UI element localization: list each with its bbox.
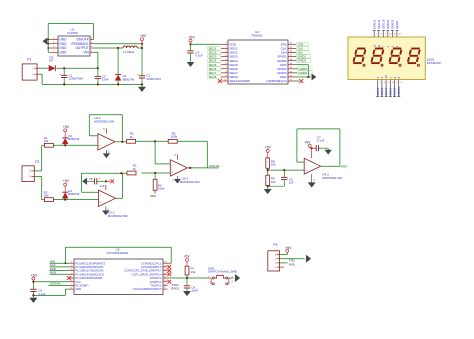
wire R6 to output node xyxy=(177,141,207,168)
svg-text:15nF: 15nF xyxy=(102,78,109,82)
svg-text:RXD: RXD xyxy=(50,271,57,275)
svg-text:GND: GND xyxy=(59,51,67,55)
svg-text:GRID1: GRID1 xyxy=(372,20,376,30)
node gnd C6 xyxy=(32,294,34,296)
svg-text:P1.4/ADC4/SS/MCLKO2: P1.4/ADC4/SS/MCLKO2 xyxy=(75,272,104,276)
power +5V at U4.2 xyxy=(304,140,316,158)
svg-text:10k: 10k xyxy=(271,180,276,184)
IC U2 TM1620 xyxy=(228,30,288,84)
wire ON/OFF loop to ground xyxy=(48,24,93,40)
svg-text:CCP1/ADC5/P1.5: CCP1/ADC5/P1.5 xyxy=(141,265,162,269)
LED1 digit 4 xyxy=(408,49,420,67)
resistor R1 xyxy=(44,136,54,147)
svg-text:M7: M7 xyxy=(49,59,54,63)
svg-text:10nF: 10nF xyxy=(191,289,198,293)
node switch / D1 xyxy=(117,47,119,49)
capacitor C3 xyxy=(95,68,109,84)
ground at U2 xyxy=(308,74,316,80)
svg-text:SIGNAL: SIGNAL xyxy=(209,164,221,168)
svg-text:+: + xyxy=(99,144,101,148)
svg-text:P2: P2 xyxy=(35,160,39,164)
svg-text:SEG13/GRID6: SEG13/GRID6 xyxy=(229,79,250,83)
ground at C4 xyxy=(187,62,194,66)
LED1 digit 3 xyxy=(389,49,401,67)
svg-text:10k: 10k xyxy=(191,270,196,274)
ground port at P3 xyxy=(306,255,311,262)
ground at U3.2 xyxy=(103,211,110,215)
net label GRID4 xyxy=(295,71,313,75)
svg-text:GRID5/SEG14: GRID5/SEG14 xyxy=(266,79,287,83)
wire P3 TXD to ground port xyxy=(280,258,305,260)
U1 left pins GND xyxy=(50,38,58,53)
net label RXD2 at U5 xyxy=(171,287,179,291)
node C5 tap xyxy=(283,169,285,171)
svg-text:GRID3: GRID3 xyxy=(391,20,395,30)
resistor R7 xyxy=(185,266,196,275)
svg-text:RXD: RXD xyxy=(289,263,295,267)
resistor R3 xyxy=(127,164,137,175)
svg-text:0.1uF: 0.1uF xyxy=(195,54,203,58)
ground at C7 xyxy=(325,148,332,154)
net label GRID1 xyxy=(295,55,311,59)
no-connect U2 pin10 xyxy=(218,79,222,83)
net label REF at R4 xyxy=(150,194,156,198)
svg-text:-: - xyxy=(306,161,307,165)
svg-text:VIN: VIN xyxy=(83,51,89,55)
node D4 clamp xyxy=(64,199,66,201)
svg-text:1uF: 1uF xyxy=(289,181,294,185)
svg-text:+: + xyxy=(305,168,307,172)
svg-text:1k: 1k xyxy=(133,167,137,171)
U4.2 feedback wire xyxy=(297,129,340,166)
connector P2 xyxy=(22,160,39,182)
wire P3 pin1 stub xyxy=(280,266,285,268)
net label SIGNAL at U5 xyxy=(49,282,70,286)
svg-text:MCP6002-ISN: MCP6002-ISN xyxy=(94,120,114,124)
node D3 clamp xyxy=(64,144,66,146)
svg-text:SWITCH-6x6x5_SMD: SWITCH-6x6x5_SMD xyxy=(208,270,238,274)
svg-text:P1.1/ADC1/TXD2/CCP0: P1.1/ADC1/TXD2/CCP0 xyxy=(75,269,104,273)
node C1 top xyxy=(63,67,65,69)
svg-text:L1 68uH: L1 68uH xyxy=(123,50,134,54)
net label CLK at U5 xyxy=(50,263,70,267)
node gnd D1 xyxy=(117,83,119,85)
connector P1 xyxy=(22,58,37,81)
wire P1 pin1 to D2 anode xyxy=(37,67,49,69)
svg-text:GRID2: GRID2 xyxy=(386,20,390,30)
svg-text:C8: C8 xyxy=(89,177,93,181)
net label GRID2 xyxy=(295,59,311,63)
wire key row xyxy=(168,277,211,279)
net label CLK xyxy=(295,46,309,50)
svg-text:1uF: 1uF xyxy=(100,184,105,188)
U4.2 ground pin xyxy=(312,174,316,183)
svg-text:B5817W: B5817W xyxy=(68,137,79,141)
svg-text:10k: 10k xyxy=(44,194,49,198)
ground at U3.1 xyxy=(103,154,110,158)
svg-text:CCP2/CCP2_2/TXD_2/INT/P3.7: CCP2/CCP2_2/TXD_2/INT/P3.7 xyxy=(124,269,162,273)
node VIN / C3 xyxy=(97,67,99,69)
wire P3 to +5V xyxy=(280,252,288,254)
net label TXD at P3 xyxy=(289,258,295,262)
capacitor C1 xyxy=(59,68,83,84)
svg-text:TXD/P3.1: TXD/P3.1 xyxy=(150,284,162,288)
op-amp U3.2 xyxy=(99,190,128,218)
svg-text:P3: P3 xyxy=(273,243,277,247)
power +5V divider xyxy=(265,146,272,158)
wire U3.1 out to R5 xyxy=(122,141,126,143)
power +5V at P3 xyxy=(285,246,292,252)
net label SIGNAL xyxy=(209,164,221,168)
node +5V output xyxy=(141,47,143,49)
display LED1 FJ5461AH xyxy=(348,37,441,80)
U3.1 feedback wire xyxy=(89,115,122,142)
node key xyxy=(186,277,188,279)
ground at U1 xyxy=(43,38,47,44)
capacitor C7 xyxy=(316,135,325,151)
svg-text:SIGNAL: SIGNAL xyxy=(50,282,61,286)
svg-text:100k: 100k xyxy=(171,135,178,139)
net label REF output xyxy=(341,164,347,168)
diode D3 xyxy=(62,134,79,145)
svg-text:GRID2: GRID2 xyxy=(297,59,306,63)
power +5V at U5 xyxy=(31,274,38,282)
node feedback xyxy=(141,43,143,45)
resistor R2 xyxy=(44,190,54,201)
svg-text:STC15W404AS: STC15W404AS xyxy=(107,251,129,255)
power +5V at D3 xyxy=(63,125,70,138)
svg-text:-: - xyxy=(172,163,173,167)
svg-text:REF: REF xyxy=(341,164,347,168)
svg-text:220uF/35V: 220uF/35V xyxy=(69,77,84,81)
U4.1 power pins xyxy=(172,154,177,182)
svg-text:+5V: +5V xyxy=(31,274,38,278)
op-amp U4.1 xyxy=(170,160,199,184)
wire U1 GND bus xyxy=(47,39,50,53)
ground at U4.2 xyxy=(308,183,315,188)
no-connect at C8 xyxy=(106,179,114,183)
U2 left pins xyxy=(222,43,229,82)
wire R3 to U4.1 non-inverting xyxy=(142,172,171,174)
svg-text:10k: 10k xyxy=(44,139,49,143)
resistor R9 xyxy=(266,175,276,185)
svg-text:-: - xyxy=(99,137,100,141)
U3.1 power pins xyxy=(103,128,110,154)
svg-text:+5V: +5V xyxy=(265,146,272,150)
node VCC xyxy=(32,281,34,283)
svg-text:+5V: +5V xyxy=(63,179,70,183)
wire +5V to VDD xyxy=(191,43,222,45)
wire SW1 to ground xyxy=(228,277,234,279)
U5 left pins xyxy=(70,262,75,290)
svg-text:10k: 10k xyxy=(271,163,276,167)
net label TXD at U5 xyxy=(171,283,179,287)
IC U1 XL1509 xyxy=(58,28,90,56)
ground at SW1 xyxy=(235,274,240,281)
LED1 digit 2 xyxy=(371,49,383,67)
U5 right pins xyxy=(163,262,168,290)
ground at U5 xyxy=(30,295,37,302)
svg-text:SEG8: SEG8 xyxy=(209,75,217,79)
power +5V at R7 xyxy=(183,255,190,267)
svg-text:P1.3/CMP+: P1.3/CMP+ xyxy=(75,284,89,288)
svg-text:XL1509: XL1509 xyxy=(67,31,78,35)
no-connect U5 pin5 xyxy=(67,276,71,280)
switch SW1 xyxy=(208,266,238,285)
svg-text:SEG11: SEG11 xyxy=(377,19,381,29)
wire L1 to +5V node xyxy=(137,47,142,49)
U1 right pins xyxy=(90,38,94,53)
ground at U4.1 xyxy=(174,179,180,183)
svg-text:P1.0/ADC0/RXD2/CCP1: P1.0/ADC0/RXD2/CCP1 xyxy=(75,265,104,269)
net label RXD at U5 xyxy=(50,271,70,275)
IC U5 STC15W404AS xyxy=(74,248,163,295)
capacitor C6 xyxy=(30,282,46,296)
no-connect U5 right pins xyxy=(167,265,171,284)
wire divider mid xyxy=(268,168,305,175)
power +5V main xyxy=(140,34,147,44)
U2 right pins xyxy=(288,43,295,82)
net label GRID3 xyxy=(295,67,313,71)
diode D1 xyxy=(115,48,134,84)
resistor R6 xyxy=(168,131,177,143)
LED1 top pins xyxy=(372,19,401,48)
svg-text:SEG9: SEG9 xyxy=(395,21,399,29)
svg-text:+5V: +5V xyxy=(304,140,311,144)
node U2 ground xyxy=(307,76,309,78)
ground at divider xyxy=(264,186,271,194)
svg-text:P5.5/ADC13/CMP0/RST2: P5.5/ADC13/CMP0/RST2 xyxy=(75,261,105,265)
svg-text:B5817W: B5817W xyxy=(68,192,79,196)
svg-text:+: + xyxy=(100,200,102,204)
svg-text:+: + xyxy=(171,170,173,174)
wire U4.1 output SIGNAL xyxy=(187,167,218,169)
svg-text:CCP0/ADC1/P1.1: CCP0/ADC1/P1.1 xyxy=(141,261,162,265)
wire R7 to node xyxy=(186,275,188,278)
svg-text:0.1uF: 0.1uF xyxy=(317,139,325,143)
node U2 VDD xyxy=(189,43,191,45)
ground at C9 xyxy=(183,291,190,296)
net labels SEG1-SEG8 xyxy=(208,46,222,79)
net label RXD at P3 xyxy=(289,263,295,267)
connector P3 xyxy=(268,243,280,271)
svg-text:+5V: +5V xyxy=(140,34,147,38)
svg-text:MCP6002-ISN: MCP6002-ISN xyxy=(322,176,342,180)
svg-text:-: - xyxy=(100,193,101,197)
node inverting input U4.1 xyxy=(154,140,156,142)
capacitor C9 xyxy=(184,278,199,293)
capacitor C8 bypass xyxy=(83,177,106,188)
svg-text:MCP6002-ISN: MCP6002-ISN xyxy=(108,214,128,218)
svg-text:T2CLKO/RXD/INT4/P3.0: T2CLKO/RXD/INT4/P3.0 xyxy=(133,287,162,291)
wire DIN loop over U5 xyxy=(65,247,172,264)
wire P2 pin2 to R2 xyxy=(34,176,44,199)
svg-text:TM1620: TM1620 xyxy=(251,34,263,38)
svg-text:GRID4: GRID4 xyxy=(299,71,308,75)
wire R2 to U3.2 xyxy=(53,199,98,201)
node gnd C3 xyxy=(97,83,99,85)
wire U5 GND xyxy=(33,289,69,295)
svg-text:MCP6002-ISN: MCP6002-ISN xyxy=(180,180,200,184)
svg-text:FJ5461AH: FJ5461AH xyxy=(427,61,442,65)
power +5V at D4 xyxy=(63,179,70,192)
net label STB xyxy=(295,42,309,46)
wire P2 pin1 to R1 xyxy=(34,145,44,171)
wire ground rail xyxy=(37,74,142,84)
wire U2 GND pins xyxy=(295,65,309,77)
capacitor C5 xyxy=(268,170,294,186)
svg-text:GRID4: GRID4 xyxy=(397,86,401,96)
wire node to U4.1 inverting xyxy=(155,141,170,164)
node divider mid xyxy=(267,169,269,171)
op-amp U4.2 xyxy=(304,158,342,180)
diode D2 xyxy=(49,55,55,71)
wire VIN riser xyxy=(94,52,98,68)
LED1 digit 1 xyxy=(353,49,365,67)
svg-text:P1.5/ADC5/MOSI/CMP-: P1.5/ADC5/MOSI/CMP- xyxy=(75,276,103,280)
svg-text:SEG10: SEG10 xyxy=(381,19,385,29)
svg-text:+5V: +5V xyxy=(63,125,70,129)
node gnd C1 xyxy=(63,83,65,85)
net label DIN xyxy=(295,51,309,55)
svg-text:RXD2: RXD2 xyxy=(171,287,179,291)
LED1 bottom pins xyxy=(376,75,403,97)
U3.2 feedback wire xyxy=(82,173,123,198)
wire R1 to U3.1 xyxy=(53,144,98,146)
node divider bottom xyxy=(267,185,269,187)
U3.2 power pins xyxy=(106,185,110,211)
wire R5 to R6 node xyxy=(136,140,169,142)
svg-text:CCP1_2/RXD_2/INT/P3.4: CCP1_2/RXD_2/INT/P3.4 xyxy=(132,272,162,276)
node U3.1 output xyxy=(121,141,123,143)
no-connect U2 pin11 xyxy=(295,79,304,83)
svg-text:+5V: +5V xyxy=(188,35,195,39)
svg-text:INT0/P3.2: INT0/P3.2 xyxy=(150,280,162,284)
inductor L1 xyxy=(123,46,137,54)
wire FEEDBACK to +5V node xyxy=(94,44,142,48)
capacitor C4 xyxy=(187,44,203,62)
svg-text:P1: P1 xyxy=(27,58,31,62)
ground main rail xyxy=(138,84,145,91)
svg-text:REF: REF xyxy=(150,194,156,198)
node gnd C2 xyxy=(141,83,143,85)
power +5V for U2 xyxy=(188,35,195,44)
svg-text:1k: 1k xyxy=(130,135,134,139)
capacitor C2 xyxy=(137,48,161,84)
wire input rail VIN xyxy=(56,67,98,69)
op-amp U3.1 xyxy=(94,116,115,150)
svg-text:B5817W: B5817W xyxy=(123,78,135,82)
node C8 xyxy=(105,180,107,182)
wire U3.2 to R3 xyxy=(120,172,127,174)
wire OUTPUT to L1 xyxy=(94,47,123,49)
wire P3 RXD xyxy=(280,262,288,264)
svg-text:100k: 100k xyxy=(158,187,165,191)
resistor R8 xyxy=(266,158,276,168)
svg-text:+5V: +5V xyxy=(285,246,292,250)
net label STB at U5 xyxy=(50,267,70,271)
svg-text:220uF/16V: 220uF/16V xyxy=(146,77,161,81)
node R4 tap xyxy=(154,172,156,174)
svg-text:GND: GND xyxy=(75,287,81,291)
svg-text:INT2/P3.3: INT2/P3.3 xyxy=(150,276,162,280)
net label DIN at U5 xyxy=(50,259,70,263)
svg-text:+5V: +5V xyxy=(183,255,190,259)
resistor R5 xyxy=(127,132,136,144)
resistor R4 xyxy=(153,173,165,194)
node U4.1 output xyxy=(189,167,191,169)
diode D4 xyxy=(62,189,79,200)
svg-text:VCC: VCC xyxy=(75,280,81,284)
wire VCC xyxy=(33,281,69,283)
